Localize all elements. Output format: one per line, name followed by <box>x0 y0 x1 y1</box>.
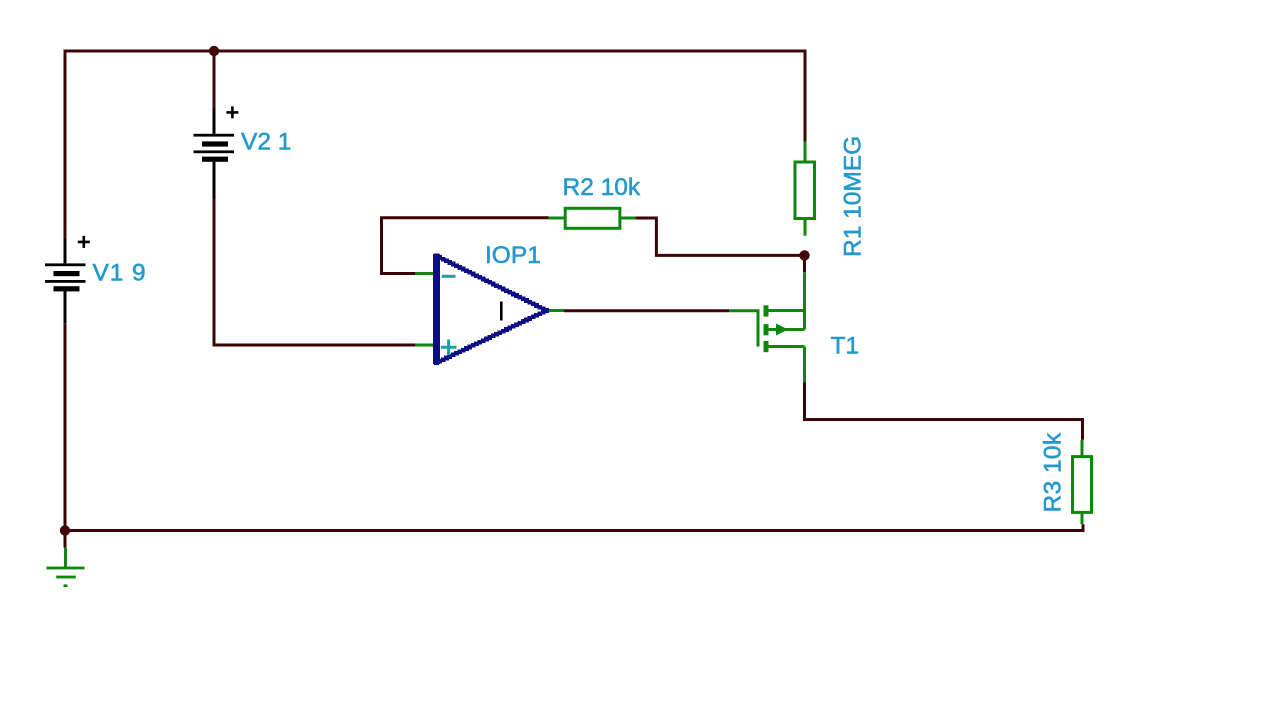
svg-text:V2 1: V2 1 <box>241 129 291 156</box>
wire <box>64 323 67 530</box>
node junction top <box>209 46 219 56</box>
svg-text:R3 10k: R3 10k <box>1040 432 1067 512</box>
wire <box>65 51 805 239</box>
wire <box>213 51 216 109</box>
wire <box>214 199 415 346</box>
resistor R1 <box>795 142 815 236</box>
svg-text:T1: T1 <box>831 333 860 360</box>
svg-text:R2 10k: R2 10k <box>563 174 641 201</box>
battery V1 <box>45 236 90 323</box>
ground <box>46 531 84 588</box>
svg-text:V1 9: V1 9 <box>93 260 147 287</box>
wire <box>805 383 1083 440</box>
wire <box>382 218 549 274</box>
resistor R2 <box>549 208 635 228</box>
op-amp U1 IOP1 <box>415 254 564 366</box>
wire <box>803 255 806 272</box>
wire <box>564 309 729 312</box>
battery V2 <box>194 106 239 198</box>
transistor T1 <box>729 272 805 382</box>
node junction right <box>799 250 809 260</box>
wire <box>635 218 800 255</box>
svg-text:R1 10MEG: R1 10MEG <box>840 136 867 257</box>
svg-text:IOP1: IOP1 <box>485 242 541 269</box>
node junction bottom <box>60 525 70 535</box>
resistor R3 <box>1073 440 1092 524</box>
wire <box>65 524 1083 530</box>
